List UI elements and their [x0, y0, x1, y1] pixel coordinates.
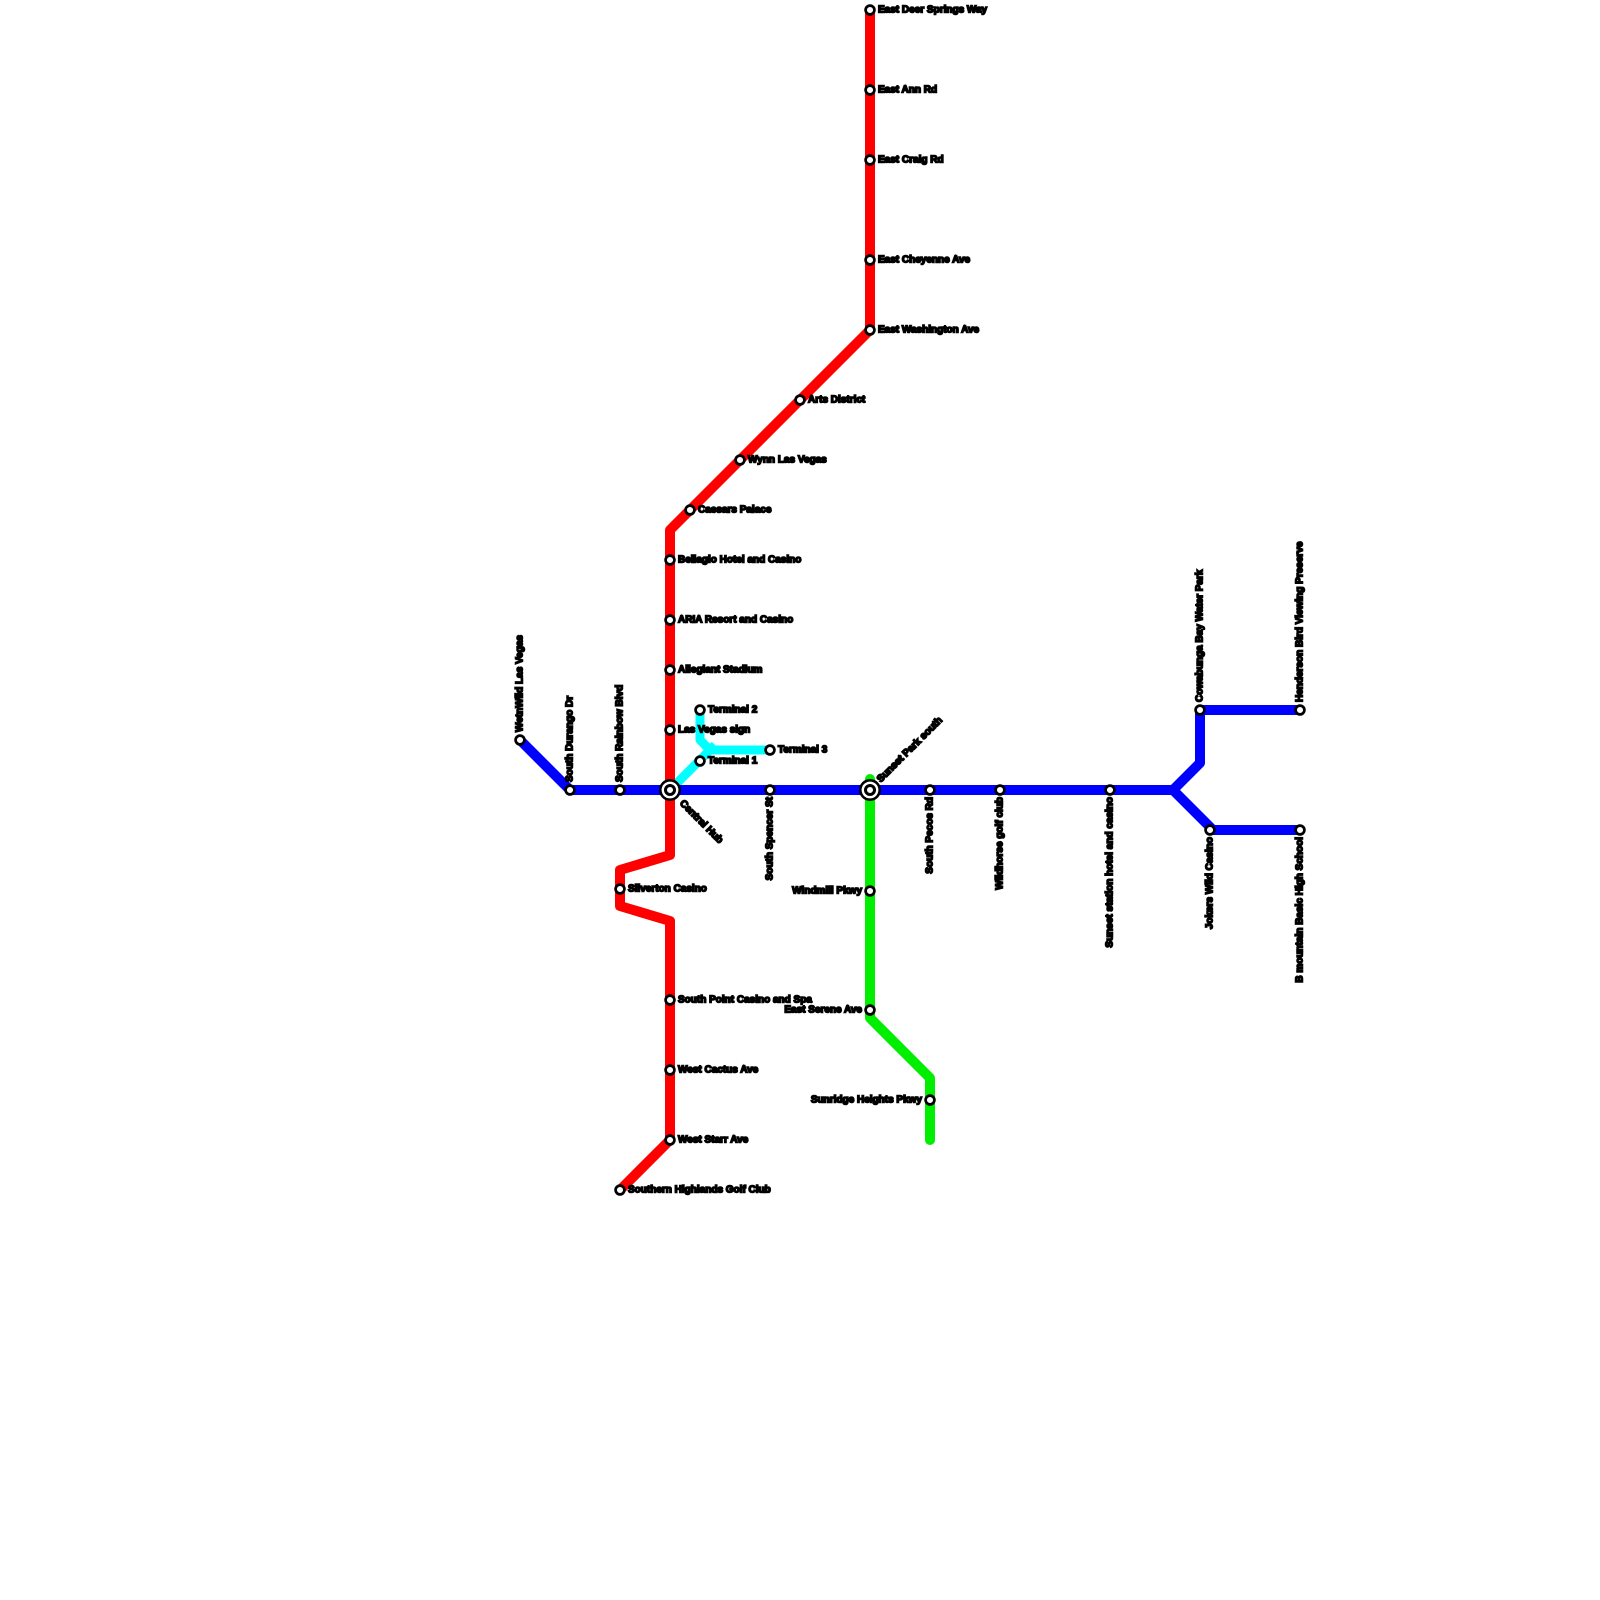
blue line main trunk [520, 740, 1173, 790]
interchange Sunset Park south [860, 780, 879, 799]
station Windmill Pkwy [866, 887, 875, 896]
station Sunridge Heights Pkwy [926, 1096, 935, 1105]
station ARIA Resort and Casino [666, 616, 675, 625]
svg-text:Windmill Pkwy: Windmill Pkwy [792, 886, 862, 897]
svg-text:East Cheyenne Ave: East Cheyenne Ave [878, 255, 971, 266]
svg-text:East Serene Ave: East Serene Ave [784, 1005, 862, 1016]
station Cowabunga Bay Water Park [1196, 706, 1205, 715]
svg-text:South Rainbow Blvd: South Rainbow Blvd [615, 685, 626, 782]
svg-text:Terminal 2: Terminal 2 [708, 705, 758, 716]
station East Serene Ave [866, 1006, 875, 1015]
station Wynn Las Vegas [736, 456, 745, 465]
station East Ann Rd [866, 86, 875, 95]
svg-text:B mountain Basic High School: B mountain Basic High School [1295, 837, 1306, 983]
station B mountain Basic High School [1296, 826, 1305, 835]
station Silverton Casino [616, 885, 625, 894]
blue line lower branch [1173, 790, 1300, 830]
svg-text:Cowabunga Bay Water Park: Cowabunga Bay Water Park [1195, 569, 1206, 702]
svg-text:Wildhorse golf club: Wildhorse golf club [995, 797, 1006, 890]
svg-text:Terminal 3: Terminal 3 [778, 745, 828, 756]
station Terminal 2 [696, 706, 705, 715]
station Terminal 1 [696, 757, 705, 766]
station Sunset station hotel and casino [1106, 786, 1115, 795]
svg-text:Henderson Bird Viewing Preserv: Henderson Bird Viewing Preserve [1295, 541, 1306, 702]
svg-text:South Pecos Rd: South Pecos Rd [925, 797, 936, 874]
station Wildhorse golf club [996, 786, 1005, 795]
svg-text:South Spencer St: South Spencer St [765, 796, 776, 880]
svg-text:East Deer Springs Way: East Deer Springs Way [878, 5, 988, 16]
station Henderson Bird Viewing Preserve [1296, 706, 1305, 715]
svg-text:WetnWild Las Vegas: WetnWild Las Vegas [515, 635, 526, 732]
svg-text:Allegiant Stadium: Allegiant Stadium [678, 665, 763, 676]
station WetnWild Las Vegas [516, 736, 525, 745]
svg-text:ARIA Resort and Casino: ARIA Resort and Casino [678, 615, 793, 626]
station Jokers Wild Casino [1206, 826, 1215, 835]
cyan airport line: Central Hub to junction via Terminal 1 [670, 745, 715, 790]
station Caesars Palace [686, 506, 695, 515]
svg-text:South Point Casino and Spa: South Point Casino and Spa [678, 995, 812, 1006]
svg-text:East Craig Rd: East Craig Rd [878, 155, 944, 166]
svg-text:Caesars Palace: Caesars Palace [698, 505, 772, 516]
station West Cactus Ave [666, 1066, 675, 1075]
svg-text:Bellagio Hotel and Casino: Bellagio Hotel and Casino [678, 555, 801, 566]
svg-text:East Ann Rd: East Ann Rd [878, 85, 937, 96]
svg-text:South Durango Dr: South Durango Dr [565, 696, 576, 782]
green line (Sunset Park south - Sunridge Heights Pkwy) [870, 779, 930, 1140]
svg-text:Jokers Wild Casino: Jokers Wild Casino [1205, 837, 1216, 929]
station East Washington Ave [866, 326, 875, 335]
svg-text:West Starr Ave: West Starr Ave [678, 1135, 749, 1146]
station South Rainbow Blvd [616, 786, 625, 795]
svg-text:Silverton Casino: Silverton Casino [628, 884, 707, 895]
station South Spencer St [766, 786, 775, 795]
station Terminal 3 [766, 746, 775, 755]
station East Deer Springs Way [866, 6, 875, 15]
svg-text:Wynn Las Vegas: Wynn Las Vegas [748, 455, 827, 466]
svg-text:Las Vegas sign: Las Vegas sign [678, 725, 750, 736]
svg-text:East Washington Ave: East Washington Ave [878, 325, 980, 336]
svg-text:Southern Highlands Golf Club: Southern Highlands Golf Club [628, 1185, 771, 1196]
blue line upper branch [1173, 710, 1300, 790]
cyan airport line: Terminal 2 to Terminal 3 [700, 710, 770, 750]
station South Point Casino and Spa [666, 996, 675, 1005]
station East Cheyenne Ave [866, 256, 875, 265]
svg-text:Arts District: Arts District [808, 395, 866, 406]
station Arts District [796, 396, 805, 405]
station Bellagio Hotel and Casino [666, 556, 675, 565]
station West Starr Ave [666, 1136, 675, 1145]
svg-text:West Cactus Ave: West Cactus Ave [678, 1065, 759, 1076]
svg-text:Sunridge Heights Pkwy: Sunridge Heights Pkwy [811, 1095, 923, 1106]
interchange Central Hub [660, 780, 679, 799]
station Allegiant Stadium [666, 666, 675, 675]
red line [620, 10, 870, 1190]
svg-text:Terminal 1: Terminal 1 [708, 756, 758, 767]
station South Durango Dr [566, 786, 575, 795]
station Las Vegas sign [666, 726, 675, 735]
station Southern Highlands Golf Club [616, 1186, 625, 1195]
svg-text:Sunset station hotel and casin: Sunset station hotel and casino [1105, 797, 1116, 948]
station South Pecos Rd [926, 786, 935, 795]
station East Craig Rd [866, 156, 875, 165]
